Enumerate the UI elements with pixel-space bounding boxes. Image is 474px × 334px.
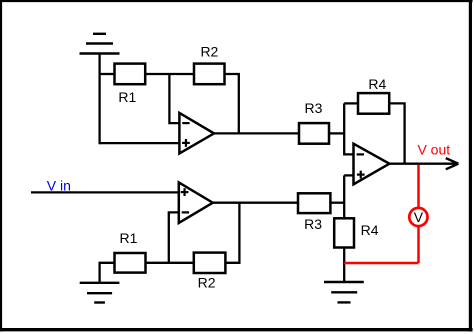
- wire (red): bottom return to ground node: [344, 262, 418, 265]
- svg-text:R1: R1: [118, 89, 136, 105]
- svg-text:R3: R3: [304, 216, 322, 232]
- ground GND3 (bottom-middle): [324, 282, 364, 302]
- resistor R2 (top): [194, 64, 225, 85]
- svg-text:R2: R2: [198, 274, 216, 290]
- svg-text:R4: R4: [368, 76, 386, 92]
- resistor R4 (top): [358, 93, 389, 114]
- wire (red): voltmeter down: [417, 226, 420, 263]
- op-amp U2: [179, 182, 213, 223]
- wire: U3 output line with arrow to V out: [389, 163, 456, 165]
- wire: R1 right to R2 left: [145, 73, 194, 75]
- svg-text:R1: R1: [120, 230, 138, 246]
- wire: R4 bottom to GND3: [343, 248, 345, 283]
- wire: node down to U3 minus input: [344, 103, 353, 154]
- wire (red): V out node down to voltmeter: [417, 165, 420, 209]
- U1 minus pin mark: [182, 122, 189, 124]
- wire: U2 minus input to lower node: [169, 212, 179, 262]
- ground GND2 (bottom-left): [80, 283, 120, 303]
- wire: U2 feedback down to R2 (bottom): [225, 203, 239, 263]
- svg-text:R3: R3: [305, 100, 323, 116]
- wire: left rail to U1 plus input: [100, 142, 180, 144]
- wire: node to R4 left: [344, 102, 358, 104]
- voltmeter V: [409, 208, 427, 226]
- wire: lower node vertical to R4 (bottom) top: [343, 175, 345, 218]
- svg-text:V in: V in: [47, 178, 71, 194]
- resistor R3 (top): [299, 123, 329, 144]
- U1 plus pin mark: [182, 139, 190, 147]
- svg-text:R4: R4: [361, 222, 379, 238]
- wire: R3 right to lower node vertical: [330, 202, 344, 204]
- wire: GND1 stem down left rail to U1 plus level: [98, 54, 100, 145]
- wire: node R1/R2 down to U1 minus input: [169, 74, 179, 123]
- svg-text:R2: R2: [200, 44, 218, 60]
- wire: U2 output to R3 (bottom): [213, 202, 298, 204]
- wire: R3 right to U3 minus node: [329, 132, 344, 134]
- resistor R1 (top): [115, 64, 146, 85]
- wire: R1 left down to GND2: [100, 263, 115, 283]
- U2 plus pin mark: [181, 188, 189, 196]
- wire: V in line to U2 plus input: [31, 191, 179, 193]
- resistor R4 (bottom, vertical): [334, 218, 354, 247]
- wire: R2 left to R1 right (bottom row): [146, 262, 194, 264]
- resistor R3 (bottom): [298, 193, 330, 213]
- wire: U3 plus input from lower node: [344, 174, 353, 176]
- op-amp U3: [354, 144, 390, 185]
- svg-text:V out: V out: [417, 141, 450, 157]
- wire: R4 right feedback down to U3 output: [389, 103, 404, 163]
- ground GND1 (top-left, inverted): [80, 34, 120, 54]
- wire: left rail to R1 left: [99, 73, 115, 75]
- U3 plus pin mark: [357, 171, 365, 179]
- resistor R1 (bottom): [115, 253, 146, 273]
- arrowhead V out: [446, 158, 459, 169]
- wire: U1 output to R3 (top): [214, 132, 299, 134]
- resistor R2 (bottom): [194, 253, 226, 273]
- U3 minus pin mark: [357, 153, 364, 155]
- op-amp U1: [179, 113, 214, 153]
- wire: R2 right feedback down to U1 output: [225, 74, 239, 133]
- svg-text:V: V: [414, 209, 424, 225]
- U2 minus pin mark: [182, 211, 189, 213]
